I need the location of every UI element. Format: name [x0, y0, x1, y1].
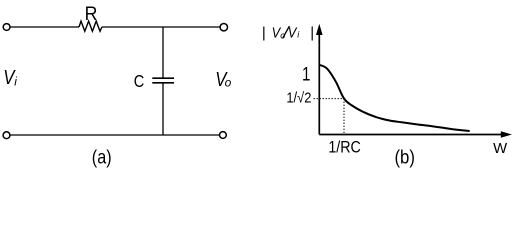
- label Vo: [215, 69, 231, 91]
- svg-text:1/√2: 1/√2: [286, 91, 311, 107]
- svg-text:R: R: [85, 4, 98, 25]
- node Vi- terminal bottom-left: [3, 132, 10, 139]
- svg-text:1: 1: [302, 65, 310, 86]
- svg-text:C: C: [134, 71, 145, 91]
- wire bottom: [10, 134, 220, 136]
- node Vo+ terminal top-right: [220, 24, 227, 31]
- capacitor C: [134, 71, 174, 91]
- svg-text:i: i: [14, 75, 17, 89]
- svg-text:1/RC: 1/RC: [328, 138, 361, 157]
- label |Vo/Vi|: [262, 24, 314, 41]
- dotted line at 1/RC: [343, 99, 345, 134]
- svg-text:|: |: [310, 24, 314, 41]
- node Vi+ terminal top-left: [3, 24, 10, 31]
- axis Y (magnitude axis): [316, 24, 323, 135]
- wire capacitor bottom vertical: [162, 83, 164, 135]
- dotted line at 1/sqrt2 level: [314, 98, 345, 100]
- wire top-left segment: [10, 26, 79, 28]
- svg-text:|: |: [262, 24, 266, 41]
- svg-text:(a): (a): [92, 147, 112, 168]
- label Vi: [3, 67, 17, 89]
- svg-text:(b): (b): [394, 147, 415, 168]
- node Vo- terminal bottom-right: [220, 132, 227, 139]
- wire top-right segment: [102, 26, 220, 28]
- svg-text:o: o: [225, 76, 232, 90]
- axis X (frequency axis): [319, 131, 512, 137]
- svg-text:W: W: [493, 141, 507, 157]
- curve magnitude response: [320, 65, 470, 131]
- wire capacitor top vertical: [162, 27, 164, 78]
- resistor R: [79, 4, 102, 31]
